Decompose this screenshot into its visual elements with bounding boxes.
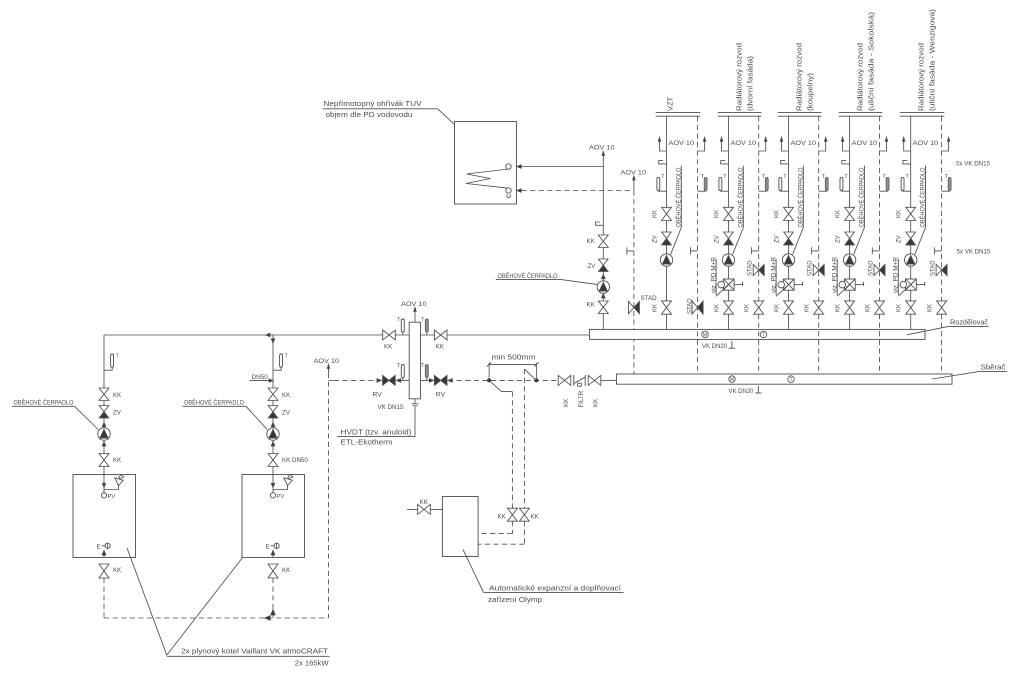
pump label (branch 5) [915,166,927,255]
vent AOV 10 (branch 3 supply) [780,137,788,151]
svg-text:min 500mm: min 500mm [492,352,536,361]
circulation pump (boiler 2) [267,428,279,440]
distributor Rozdělovač [590,329,926,339]
circulation pump (branch 5) [905,254,917,266]
flow arrow on main [266,333,270,336]
flow arrow [602,294,606,298]
sensor E (branch 5) [903,161,911,164]
svg-text:Radiátorový rozvod: Radiátorový rozvod [917,43,926,111]
valve KK (boiler 1 top) [99,388,122,401]
valve KK (branch 4 supply bottom) [835,301,854,314]
flow arrow [429,379,433,383]
svg-text:OBĚHOVÉ ČERPADLO: OBĚHOVÉ ČERPADLO [498,271,558,280]
pump label (branch 1) [671,166,683,255]
wire branch 2 return riser dashed [758,116,760,374]
thermometer T (branch 4 return) [880,174,890,191]
wire boiler drain header dashed [104,617,329,619]
mixing valve label (branch 5) [894,256,900,295]
branch 3 header bar [778,113,822,117]
collector Sběrač [617,374,953,384]
valve KK (TUV riser upper) [587,235,609,248]
svg-text:KK: KK [897,304,903,312]
valve STAD (TUV return) [628,295,657,314]
thermometer T (supply right) [421,317,428,335]
wire TUV return riser dashed [633,191,635,375]
valve KK (branch 3 supply bottom) [774,301,793,314]
valve KK (boiler 2 top) [268,388,291,401]
svg-text:HVDT (tzv. anuloid): HVDT (tzv. anuloid) [341,427,412,436]
safety valve group PV (boiler 2) [270,475,292,501]
svg-text:KK: KK [835,210,841,218]
circulation pump (branch 3) [782,254,794,266]
svg-text:AOV 10: AOV 10 [401,301,427,308]
svg-text:FILTR: FILTR [578,390,585,407]
svg-text:KK DN50: KK DN50 [282,457,308,464]
svg-text:Radiátorový rozvod: Radiátorový rozvod [795,43,804,111]
svg-text:RV: RV [373,391,383,398]
flow arrow into boiler [102,483,105,487]
valve KK (expansion left) [498,508,518,521]
svg-text:DN50: DN50 [252,374,269,381]
wire branch 1 return riser dashed [697,116,699,374]
mixing valve viz. PD M+R (branch 2) [716,279,742,296]
valve KK (branch 3 supply) [774,207,793,220]
arrow into tank return [517,189,521,192]
thermometer T (branch 1 return) [698,174,708,191]
svg-text:KK: KK [745,304,751,312]
wire return main dashed (mid) [448,379,558,381]
branch 2 header bar [718,113,762,117]
svg-text:PV: PV [277,494,285,500]
svg-text:STAD: STAD [641,295,658,302]
valve KK (supply left of HVDT) [383,330,396,351]
vent AOV 10 (branch 4 return) [880,137,888,151]
label VK DN15 [378,404,404,411]
sensor E (TUV riser) [596,222,604,225]
flow arrow [102,423,106,427]
circulation pump (boiler 1) [98,428,110,440]
svg-text:KK: KK [384,344,393,351]
vent AOV 10 (branch 2 return) [759,137,767,151]
svg-text:RV: RV [436,391,446,398]
mixing valve viz. PD M+R (branch 3) [776,279,802,296]
wire expansion right dashed [478,521,524,544]
flow arrow [448,379,452,383]
check valve ZV (branch 1) [652,232,671,245]
svg-text:KK: KK [587,302,596,309]
wire branch 4 supply riser [849,116,851,329]
sensor E (branch 4) [842,161,850,164]
svg-text:(koupelny): (koupelny) [806,72,815,111]
valve KK (below boiler 2) [268,564,291,578]
flow arrow [102,551,106,558]
svg-text:KK: KK [714,210,720,218]
drain tee symbol [627,247,634,254]
svg-text:ETL-Ekotherm: ETL-Ekotherm [341,438,393,447]
branch 1 label VZT [666,97,675,111]
svg-text:AOV 10: AOV 10 [589,145,615,152]
flow arrow at drain junction [271,610,275,616]
valve STAD (branch 5 return) [931,260,948,276]
wire return main dashed (left) [334,379,382,381]
svg-text:Rozdělovač: Rozdělovač [950,317,988,326]
check valve ZV (branch 2) [714,232,733,245]
thermometer T (branch 5 supply) [901,174,911,191]
pump label (branch 2) [733,166,745,255]
tank heating coil [466,164,511,198]
svg-text:5x VK DN15: 5x VK DN15 [957,248,991,255]
vent AOV 10 (TUV return) [621,170,647,191]
svg-text:STAD: STAD [748,260,754,276]
check valve ZV (branch 5) [897,232,916,245]
drain tee symbol (branch 2) [752,247,759,254]
pressure valve RV (right) [434,375,447,398]
svg-text:KK: KK [420,499,429,506]
mixing valve label (branch 3) [771,256,777,295]
svg-text:VK DN20: VK DN20 [729,388,754,395]
svg-text:Radiátorový rozvod: Radiátorový rozvod [735,43,744,111]
pump label (branch 3) [793,166,805,255]
svg-text:OBĚHOVÉ ČERPADLO: OBĚHOVÉ ČERPADLO [14,398,74,407]
mixing valve label (branch 2) [711,256,717,295]
flow arrow [602,275,606,279]
vent AOV 10 (branch 1 supply) [658,137,666,151]
sensor E (branch 2) [721,161,729,164]
thermometer T (branch 2 supply) [719,174,729,191]
svg-text:KK: KK [774,304,780,312]
wire AOV riser dashed [328,373,330,618]
branch 5 label Radiátorový rozvod (uliční fasáda - Wenzigova) [917,8,937,111]
valve KK (branch 1 supply bottom) [652,301,671,314]
wire boiler 1 riser [103,335,105,475]
svg-text:ZV: ZV [774,235,780,243]
svg-text:E: E [266,545,270,551]
valve KK (branch 2 supply bottom) [714,301,733,314]
HVDT drain [412,399,419,406]
svg-text:AOV 10: AOV 10 [852,140,878,147]
svg-text:objem dle PD vodovodu: objem dle PD vodovodu [326,110,413,119]
wire tank return dashed [522,190,634,192]
svg-text:KK: KK [113,567,122,574]
wire TUV supply riser [602,167,604,330]
wire branch 5 supply riser [910,116,912,329]
thermometer T (boiler 2) [273,354,289,371]
svg-text:KK: KK [593,398,600,407]
svg-text:KK: KK [805,304,811,312]
valve STAD (branch 3 return) [808,260,825,276]
drain tee symbol (branch 1) [690,247,697,254]
svg-text:Automatické expanzní a doplňov: Automatické expanzní a doplňovací [489,583,622,592]
branch 3 label Radiátorový rozvod (koupelny) [795,43,815,111]
wire main supply [104,334,590,336]
flow arrow into boiler [271,483,274,487]
wire branch 4 return riser dashed [879,116,881,374]
valve KK (TUV riser lower) [587,301,609,314]
svg-text:2x 165kW: 2x 165kW [295,659,330,668]
vent AOV 10 (branch 1 return) [698,137,706,151]
valve KK (below boiler 1) [99,564,122,578]
svg-text:KK: KK [498,514,507,521]
boiler 1 box [73,475,136,558]
branch 4 AOV 10 text [852,140,878,147]
valve KK (branch 2 return) [745,301,764,314]
label VK DN20 (distributor) [702,341,735,350]
flow arrow into riser [271,339,274,343]
leader from boiler 2 [167,558,242,655]
svg-text:KK: KK [113,392,122,399]
svg-text:AOV 10: AOV 10 [913,140,939,147]
wire tank supply [522,166,604,168]
tick to return main [329,379,334,381]
svg-text:KK: KK [774,210,780,218]
svg-text:(dvorní fasáda): (dvorní fasáda) [746,55,755,111]
svg-text:KK: KK [897,210,903,218]
vent AOV 10 (HVDT) [401,301,427,322]
valve KK (branch 5 supply bottom) [897,301,916,314]
wire expansion drop right dashed [523,369,525,508]
svg-text:KK: KK [652,210,658,218]
branch 5 header bar [900,113,944,117]
thermometer T (branch 4 supply) [840,174,850,191]
vent AOV 10 (branch 5 return) [942,137,950,151]
safety valve group PV (boiler 1) [101,475,123,501]
valve KK (before filter) [558,375,571,407]
flow arrow on drain header [265,616,271,620]
wire filling line [407,508,442,510]
vent AOV 10 (branch 5 supply) [903,137,911,151]
wire boiler 2 drain dashed [272,578,274,618]
valve STAD (branch 1 return) [687,298,703,314]
label 5x VK DN15 (lower) [957,248,991,255]
valve KK (branch 1 supply) [652,207,671,220]
flow arrow [271,423,275,427]
wire branch 3 return riser dashed [818,116,820,374]
svg-text:(uliční fasáda - Wenzigova): (uliční fasáda - Wenzigova) [928,8,937,111]
svg-text:KK: KK [587,238,596,245]
valve KK (expansion right) [519,508,539,521]
drain E symbol (boiler 2) [266,543,280,551]
label DN50 [250,374,274,382]
filter FILTR [574,375,585,408]
svg-text:Nepřímotopný ohřívák TUV: Nepřímotopný ohřívák TUV [324,99,422,108]
thermometer T (branch 1 supply) [657,174,667,191]
branch 1 header bar [656,113,701,117]
drain tee symbol (branch 3) [812,247,819,254]
expansion device box [442,497,478,557]
svg-text:VK DN20: VK DN20 [702,343,727,350]
valve KK (branch 5 supply) [897,207,916,220]
pump label OBĚHOVÉ ČERPADLO (TUV) [496,271,598,284]
valve KK (boiler 2 bottom) [268,454,308,467]
pressure valve RV (left) [373,375,396,398]
svg-text:ZV: ZV [652,235,658,243]
svg-text:T: T [789,377,792,383]
svg-text:ZV: ZV [113,410,122,417]
svg-text:KK: KK [436,344,445,351]
check valve ZV (branch 4) [835,232,854,245]
svg-text:T: T [762,332,765,338]
drain tee symbol (branch 4) [872,247,879,254]
svg-text:KK: KK [865,304,871,312]
junction node (right) [534,378,538,382]
svg-text:AOV 10: AOV 10 [314,358,340,365]
svg-text:ZV: ZV [282,410,291,417]
valve KK (boiler 1 bottom) [99,454,122,467]
svg-text:ZV: ZV [835,235,841,243]
vent AOV 10 (branch 4 supply) [841,137,849,151]
thermometer T (branch 5 return) [942,174,952,191]
circulation pump (branch 1) [660,254,672,266]
wire to collector [601,379,617,381]
svg-text:KK: KK [282,392,291,399]
svg-text:ZV: ZV [588,263,597,270]
valve KK (branch 3 return) [805,301,824,314]
vent AOV 10 (boiler circuit) [314,358,340,373]
check valve ZV (branch 3) [774,232,793,245]
branch 3 AOV 10 text [791,140,817,147]
svg-text:PV: PV [108,494,116,500]
label 5x VK DN15 (upper) [956,161,990,168]
svg-text:zařízení Olymp: zařízení Olymp [488,595,542,604]
svg-text:Radiátorový rozvod: Radiátorový rozvod [856,43,865,111]
branch 4 label Radiátorový rozvod (uliční fasáda - Sokolská) [856,11,876,111]
circulation pump (TUV) [597,281,609,293]
svg-text:OBĚHOVÉ ČERPADLO: OBĚHOVÉ ČERPADLO [184,398,244,407]
wire expansion drop left dashed [511,392,513,509]
sensor E (branch 1) [659,161,667,164]
svg-text:AOV 10: AOV 10 [669,140,695,147]
pump label OBĚHOVÉ ČERPADLO (boiler 2) [183,398,268,430]
branch 4 header bar [839,113,882,117]
mixing valve label (branch 4) [832,256,838,295]
boiler 2 box [242,475,305,558]
svg-text:VK DN15: VK DN15 [378,404,404,411]
wire boiler 2 riser [272,335,274,475]
svg-text:VZT: VZT [666,97,675,111]
hydraulic separator HVDT [409,322,420,399]
valve KK (branch 5 return) [927,301,946,314]
svg-text:STAD: STAD [687,298,693,314]
svg-text:STAD: STAD [869,260,875,276]
svg-text:2x plynový kotel Vaillant VK a: 2x plynový kotel Vaillant VK atmoCRAFT [181,646,328,655]
branch 5 AOV 10 text [913,140,939,147]
check valve ZV (boiler 1) [99,406,122,419]
svg-text:KK: KK [835,304,841,312]
drain E symbol (boiler 1) [97,543,111,551]
check valve ZV (boiler 2) [268,406,291,419]
svg-text:Sběrač: Sběrač [981,362,1006,371]
vent AOV 10 (branch 2 supply) [720,137,728,151]
expansion pipe offset (right) [524,369,536,380]
junction node (left) [487,378,491,382]
thermometer T (branch 3 supply) [779,174,789,191]
pump label OBĚHOVÉ ČERPADLO (boiler 1) [12,398,98,430]
svg-text:(uliční fasáda - Sokolská): (uliční fasáda - Sokolská) [867,11,876,111]
svg-text:ZV: ZV [714,235,720,243]
valve KK (branch 4 return) [865,301,884,314]
boilers label [167,646,330,667]
flow arrow [271,442,275,446]
svg-text:E: E [97,545,101,551]
branch 2 label Radiátorový rozvod (dvorní fasáda) [735,43,755,111]
expansion device label [484,583,624,604]
vent AOV 10 (branch 3 return) [819,137,827,151]
wire return across HVDT [397,379,434,381]
vent AOV 10 (TUV supply) [589,145,615,167]
svg-text:STAD: STAD [808,260,814,276]
circulation pump (branch 4) [843,254,855,266]
valve STAD (branch 4 return) [869,260,886,276]
svg-text:AOV 10: AOV 10 [621,170,647,177]
svg-text:KK: KK [927,304,933,312]
collector label [932,362,1007,379]
gauge M (collector) [729,376,736,383]
svg-text:KK: KK [652,304,658,312]
svg-text:KK: KK [563,398,570,407]
mixing valve viz. PD M+R (branch 4) [837,279,863,296]
svg-text:M: M [703,332,707,338]
wire branch 2 supply riser [728,116,730,329]
flow arrow [377,379,381,383]
branch 1 AOV 10 text [669,140,695,147]
svg-text:AOV 10: AOV 10 [791,140,817,147]
svg-text:KK: KK [282,567,291,574]
wire branch 1 supply riser [666,116,668,329]
wire expansion left dashed [478,521,512,533]
leader to expansion label [463,549,484,592]
svg-text:AOV 10: AOV 10 [731,140,757,147]
valve KK (after filter) [588,375,601,407]
wire boiler 1 drain dashed [103,578,105,618]
hot-water tank label [323,99,438,119]
distributor label [907,317,989,335]
svg-text:KK: KK [714,304,720,312]
flow arrow [397,379,401,383]
flow arrow [102,442,106,446]
thermometer T (return left) [397,363,404,380]
pump label (branch 4) [854,166,866,255]
thermometer T (return right) [421,363,428,380]
valve KK (supply right of HVDT) [434,330,447,351]
leader to tank [438,109,475,143]
gauge T (distributor) [760,331,767,338]
wire branch 3 supply riser [788,116,790,329]
mixing valve viz. PD M+R (branch 5) [898,279,924,296]
svg-text:STAD: STAD [931,260,937,276]
svg-text:5x VK DN15: 5x VK DN15 [956,161,990,168]
leader from boiler 1 [127,548,167,655]
valve KK (filling) [418,499,431,515]
dimension min 500mm [487,352,539,380]
svg-text:KK: KK [531,514,540,521]
drain tee symbol (branch 5) [934,247,941,254]
wire branch 5 return riser dashed [941,116,943,374]
valve KK (branch 4 supply) [835,207,854,220]
sensor E (branch 3) [781,161,789,164]
HVDT leader [414,407,416,437]
svg-text:ZV: ZV [897,235,903,243]
gauge M (distributor) [702,331,709,338]
arrow into tank supply [517,165,521,168]
expansion pipe offset (left) [489,380,512,391]
gauge T (collector) [788,376,795,383]
hot-water tank TUV [455,122,517,205]
valve STAD (branch 2 return) [748,260,765,276]
thermometer T (branch 3 return) [819,174,829,191]
label VK DN20 (collector) [729,386,762,395]
thermometer T (branch 2 return) [759,174,769,191]
thermometer T (boiler 1) [104,354,120,371]
